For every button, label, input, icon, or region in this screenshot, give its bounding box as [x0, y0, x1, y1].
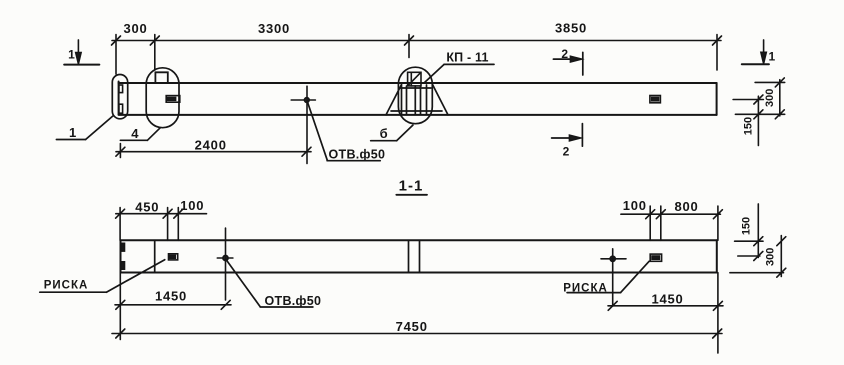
section marker 1 left: [64, 40, 99, 65]
label OTB f50 bottom with leader: [226, 260, 313, 307]
riska plate right (bottom view): [650, 254, 661, 261]
svg-text:150: 150: [743, 117, 755, 135]
left end weld mark lower (bottom view): [121, 262, 125, 269]
hole cross right (bottom view): [601, 249, 626, 306]
svg-text:2400: 2400: [195, 138, 227, 153]
svg-text:ОТВ.ф50: ОТВ.ф50: [265, 294, 322, 308]
embedded plate in detail 4: [166, 96, 180, 103]
label RISKA right with leader: [567, 261, 649, 292]
joint detail b vertical bars: [402, 85, 427, 115]
svg-text:1: 1: [69, 125, 77, 140]
svg-text:300: 300: [764, 248, 776, 266]
svg-text:100: 100: [180, 198, 204, 213]
dimension 7450: [112, 329, 722, 338]
joint detail b horizontal rails: [391, 88, 442, 111]
beam elevation top view body: [119, 82, 717, 115]
joint line at left block (bottom view): [154, 240, 156, 272]
dimension 2400: [116, 144, 311, 158]
left end weld mark upper (top view): [119, 85, 123, 93]
hole OTB f50 cross left (bottom view): [217, 228, 233, 300]
top notch bump on beam top edge: [155, 72, 167, 83]
dimension 1450 right: [608, 273, 723, 353]
dimension 450/100 (bottom left): [116, 208, 207, 241]
dimension 1450 left: [115, 273, 231, 340]
svg-text:300: 300: [764, 89, 776, 107]
svg-text:150: 150: [741, 217, 753, 235]
svg-text:1450: 1450: [155, 288, 187, 303]
section marker 2 lower: [552, 124, 583, 147]
label 4 with leader: [120, 128, 160, 141]
svg-text:800: 800: [674, 199, 698, 214]
svg-text:1: 1: [768, 50, 775, 64]
detail circle b: [398, 67, 432, 124]
beam section bottom view body: [121, 240, 717, 272]
label OTB f50 top with leader: [307, 100, 380, 161]
hole OTB f50 centre cross (top view): [291, 86, 315, 163]
joint detail b parallelogram right diagonal: [433, 85, 449, 115]
svg-text:1: 1: [68, 48, 75, 62]
detail circle 1 (left end cap): [112, 75, 127, 119]
label b with leader: [371, 125, 413, 141]
section marker 2 upper: [553, 52, 582, 75]
riska plate left (bottom view): [169, 254, 178, 260]
svg-text:300: 300: [123, 21, 147, 36]
top dimension line 300/3300/3850: [112, 35, 722, 75]
right vertical dimension 300 (top view): [735, 78, 784, 119]
joint detail b parallelogram left diagonal: [386, 85, 402, 115]
embedded plate right (top view): [650, 96, 661, 103]
svg-text:РИСКА: РИСКА: [44, 280, 89, 292]
svg-text:4: 4: [131, 126, 139, 141]
label 1 with leader: [56, 116, 113, 140]
svg-text:1-1: 1-1: [399, 178, 424, 195]
svg-text:100: 100: [623, 198, 647, 213]
left end weld mark lower (top view): [119, 104, 123, 113]
svg-text:3850: 3850: [555, 21, 587, 36]
right vertical dimension 150 (bottom view): [735, 204, 763, 261]
detail circle 4: [146, 68, 179, 128]
svg-text:КП - 11: КП - 11: [446, 51, 488, 65]
svg-text:1450: 1450: [651, 291, 683, 306]
section marker 1 right: [742, 40, 769, 64]
label RISKA left with leader: [40, 260, 165, 293]
svg-text:450: 450: [135, 199, 159, 214]
dimension 100/800 (bottom right): [621, 206, 723, 240]
left end weld mark upper (bottom view): [121, 243, 125, 251]
label KP-11 with leader: [424, 64, 494, 83]
right vertical dimension 150 (top view): [733, 95, 763, 146]
svg-text:2: 2: [563, 144, 570, 158]
svg-text:ОТВ.ф50: ОТВ.ф50: [329, 148, 386, 162]
right vertical dimension 300 (bottom view): [730, 236, 786, 278]
joint double line (bottom view): [409, 240, 420, 272]
svg-text:б: б: [380, 126, 389, 141]
svg-text:3300: 3300: [258, 21, 290, 36]
svg-text:РИСКА: РИСКА: [563, 282, 608, 294]
svg-text:2: 2: [561, 47, 568, 61]
svg-text:7450: 7450: [396, 319, 428, 334]
KP-11 chimney block: [408, 72, 421, 86]
